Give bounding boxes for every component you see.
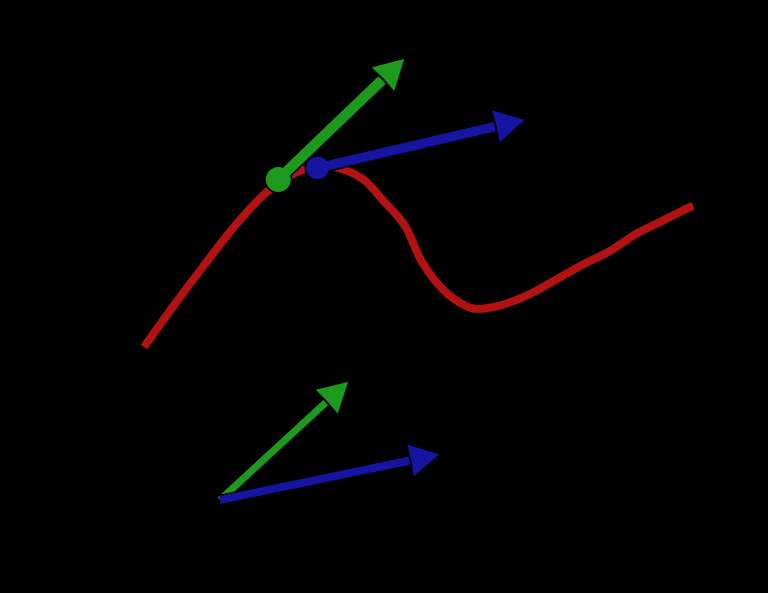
- vector v2: blue velocity arrow at point P2: [305, 109, 527, 181]
- point P2: blue dot on curve: [306, 157, 329, 180]
- vector v2 copy: blue arrow from common origin (bottom diagram): [220, 443, 441, 500]
- vector v1 copy: green arrow from common origin (bottom diagram): [220, 381, 350, 501]
- point P1: green dot on curve: [266, 167, 291, 192]
- vector v1: green velocity arrow at point P1: [264, 57, 405, 193]
- curve: trajectory (dark red): [144, 166, 693, 347]
